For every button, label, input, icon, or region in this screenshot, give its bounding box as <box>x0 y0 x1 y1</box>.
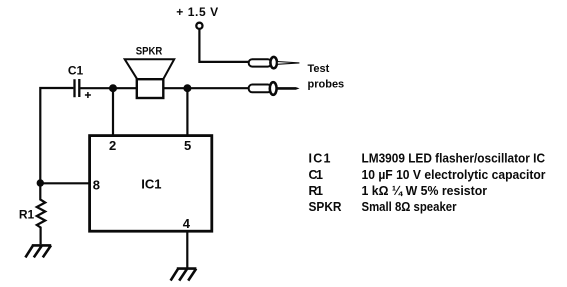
wire pin 5 <box>186 88 188 137</box>
svg-text:R1: R1 <box>19 207 35 221</box>
svg-text:SPKR: SPKR <box>309 200 342 214</box>
svg-text:10 µF 10 V electrolytic capaci: 10 µF 10 V electrolytic capacitor <box>362 168 546 182</box>
probe P1 collar <box>270 57 277 68</box>
svg-text:LM3909 LED flasher/oscillator: LM3909 LED flasher/oscillator IC <box>362 152 546 166</box>
polarity plus sign <box>85 92 91 98</box>
svg-text:probes: probes <box>308 78 345 90</box>
wire supply to probe 1 <box>199 29 248 62</box>
node junction dot B <box>183 84 191 92</box>
resistor R1 <box>37 183 45 244</box>
probe P2 needle <box>277 87 300 90</box>
svg-text:IC1: IC1 <box>141 176 161 191</box>
wire pin 4 <box>186 231 188 269</box>
ground (left) <box>25 245 51 257</box>
op IC1 box <box>90 136 212 232</box>
svg-text:R1: R1 <box>309 184 324 198</box>
node junction dot A <box>109 84 117 92</box>
svg-text:C1: C1 <box>68 64 84 78</box>
svg-text:Test: Test <box>308 63 330 75</box>
node junction dot C <box>37 179 44 186</box>
svg-text:SPKR: SPKR <box>136 45 163 57</box>
wire pin 2 <box>112 88 114 137</box>
speaker SPKR frame <box>137 79 164 98</box>
speaker SPKR cone <box>125 59 175 79</box>
wire capacitor to probe 2 <box>80 87 249 89</box>
probe P1 body <box>249 59 272 66</box>
wire pin 8 <box>40 182 89 184</box>
probe P1 needle <box>277 62 299 65</box>
probe P2 collar <box>270 82 277 95</box>
svg-text:C1: C1 <box>309 168 324 182</box>
svg-text:+ 1.5 V: + 1.5 V <box>176 5 219 19</box>
main wire (top rail) <box>40 88 73 183</box>
svg-text:Small 8Ω speaker: Small 8Ω speaker <box>362 200 457 214</box>
svg-text:1 kΩ ¼ W 5% resistor: 1 kΩ ¼ W 5% resistor <box>362 184 488 198</box>
svg-text:4: 4 <box>183 216 191 231</box>
svg-text:2: 2 <box>109 138 116 153</box>
capacitor C1 plates <box>75 79 80 97</box>
probe P2 body <box>249 85 272 93</box>
svg-text:5: 5 <box>184 138 191 153</box>
svg-text:8: 8 <box>93 178 100 193</box>
battery terminal <box>196 23 202 29</box>
svg-text:IC1: IC1 <box>309 152 331 166</box>
ground (bottom) <box>171 269 197 281</box>
